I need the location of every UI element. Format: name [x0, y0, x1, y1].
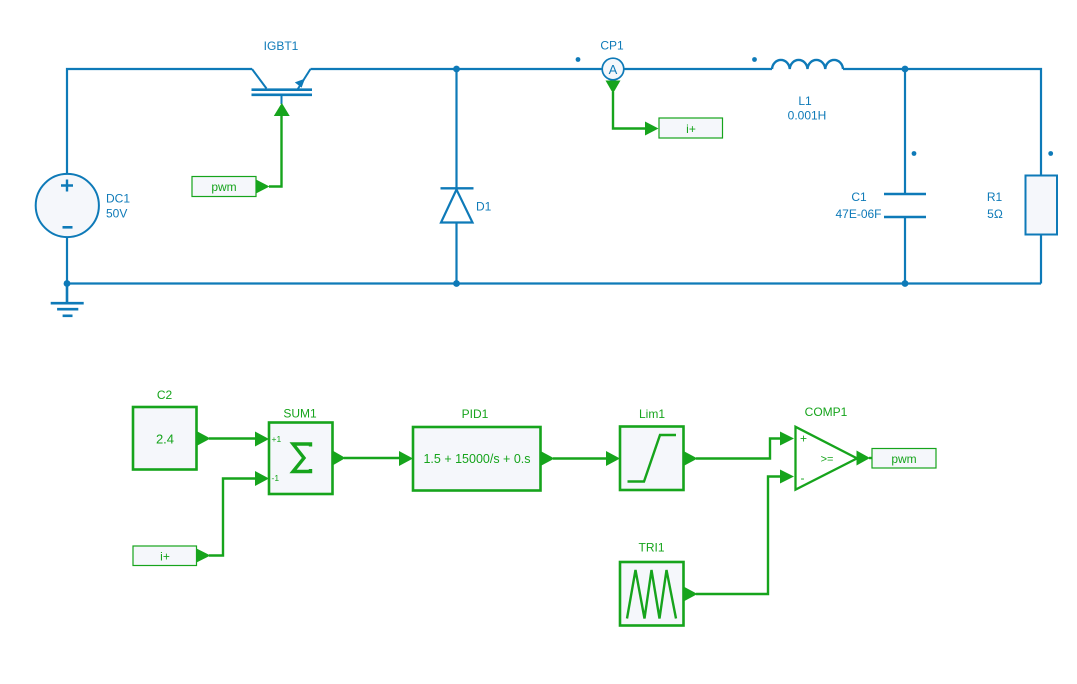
comparator COMP1	[796, 405, 871, 490]
svg-text:SUM1: SUM1	[283, 407, 317, 421]
wire bottom rail	[67, 282, 1041, 284]
triangle source TRI1	[620, 541, 698, 626]
node: cap bottom	[902, 280, 909, 287]
wire top rail left: DC1 top to IGBT collector	[67, 69, 252, 174]
node junction dots	[64, 66, 909, 287]
wire L1 to top-right corner and down to R1	[843, 69, 1041, 176]
node: cap top	[902, 66, 909, 73]
wire CP1 to L1	[624, 68, 773, 70]
svg-text:1.5 + 15000/s + 0.s: 1.5 + 15000/s + 0.s	[423, 452, 530, 466]
svg-text:Lim1: Lim1	[639, 407, 665, 421]
svg-text:A: A	[609, 62, 618, 77]
svg-text:5Ω: 5Ω	[987, 207, 1003, 221]
wire capacitor branch top	[904, 69, 906, 194]
node: diode bottom	[453, 280, 460, 287]
voltage source DC1	[36, 174, 131, 237]
svg-text:i+: i+	[686, 122, 696, 136]
svg-text:COMP1: COMP1	[805, 405, 848, 419]
transistor IGBT1	[252, 39, 313, 104]
svg-text:pwm: pwm	[891, 452, 916, 466]
capacitor C1	[835, 190, 926, 221]
wire R1 bottom to bottom rail	[1040, 235, 1042, 284]
wire COMP1 to pwm label	[869, 457, 872, 459]
wire i+ to SUM1 minus input	[209, 479, 256, 556]
gate arrow up	[274, 103, 290, 116]
wire diode branch bottom	[455, 223, 457, 284]
svg-text:TRI1: TRI1	[638, 541, 664, 555]
svg-text:DC1: DC1	[106, 192, 130, 206]
resistor R1	[987, 176, 1057, 235]
svg-text:IGBT1: IGBT1	[264, 39, 299, 53]
label pwm (gate drive source)	[192, 177, 270, 197]
wire capacitor branch bottom	[904, 217, 906, 284]
limiter Lim1	[620, 407, 698, 490]
svg-text:R1: R1	[987, 190, 1003, 204]
svg-text:pwm: pwm	[211, 180, 236, 194]
wire Lim1 to COMP1 plus input	[696, 439, 781, 459]
svg-text:50V: 50V	[106, 207, 127, 221]
inductor L1	[772, 60, 843, 123]
diode D1	[441, 188, 492, 222]
probe output arrow down from CP1	[606, 81, 621, 94]
label pwm (output)	[872, 449, 936, 469]
svg-text:-: -	[801, 471, 805, 485]
wire CP1 to i+ label	[613, 92, 646, 129]
svg-text:>=: >=	[821, 454, 834, 466]
constant block C2	[133, 388, 211, 470]
wire DC1 bottom to ground node	[66, 237, 68, 284]
svg-text:+: +	[800, 432, 807, 446]
wire C2 to SUM1	[209, 437, 256, 439]
svg-text:L1: L1	[798, 94, 812, 108]
svg-text:i+: i+	[160, 550, 170, 564]
wire diode branch top	[455, 69, 457, 188]
svg-text:PID1: PID1	[462, 407, 489, 421]
svg-text:-1: -1	[272, 473, 280, 483]
wire PID1 to Lim1	[553, 457, 607, 459]
node: diode top	[453, 66, 460, 73]
svg-text:CP1: CP1	[600, 39, 624, 53]
wire pwm to IGBT gate	[269, 115, 282, 187]
svg-text:C2: C2	[157, 388, 173, 402]
polarity dots	[576, 57, 1054, 156]
label i+ (feedback source)	[133, 546, 211, 566]
summer SUM1	[255, 407, 346, 495]
wire TRI1 to COMP1 minus input	[696, 477, 781, 595]
svg-text:D1: D1	[476, 200, 492, 214]
arrow into i+ label	[645, 122, 659, 136]
svg-text:47E-06F: 47E-06F	[835, 207, 881, 221]
node: source/ground junction	[64, 280, 71, 287]
svg-text:C1: C1	[851, 190, 867, 204]
wire IGBT emitter to CP1	[311, 68, 603, 70]
label i+ (current sense)	[659, 118, 723, 138]
svg-text:+1: +1	[272, 434, 282, 444]
current probe CP1	[600, 39, 624, 80]
wire SUM1 to PID1	[344, 457, 400, 459]
ground	[51, 284, 84, 316]
PID block PID1	[413, 407, 555, 491]
svg-text:2.4: 2.4	[156, 432, 174, 447]
svg-text:0.001H: 0.001H	[788, 109, 827, 123]
